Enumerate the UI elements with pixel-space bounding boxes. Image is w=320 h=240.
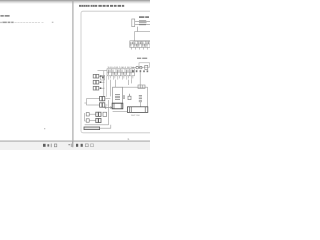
wire tank to reservoir <box>113 111 128 113</box>
wire drop lines from valve row <box>111 80 132 97</box>
wire right drop <box>147 87 149 106</box>
wire strainer stem <box>139 102 141 107</box>
wire right vertical to bottom <box>108 100 110 125</box>
cylinder C1 <box>132 19 150 27</box>
wire pump down <box>139 72 141 87</box>
strainer S1 hatched <box>139 95 142 101</box>
valve row spring marks below <box>109 76 133 80</box>
pump P1 symbols <box>136 65 148 69</box>
check valve row CV2 <box>88 103 108 107</box>
pump group label text <box>137 58 147 59</box>
left page stray mark <box>44 128 45 129</box>
bracket wire left of check valves <box>86 99 87 105</box>
hose reel symbol <box>128 94 131 100</box>
valve row labels text <box>108 67 136 69</box>
cylinder C1 piston hatch <box>139 21 147 25</box>
page divider <box>72 0 73 141</box>
flow arrow symbol <box>105 107 112 109</box>
manifold bar B1 <box>84 127 100 130</box>
wire left stack vertical <box>103 71 105 97</box>
node tick label <box>84 102 86 104</box>
left page part number line <box>0 22 13 24</box>
bracket wire left of motors <box>85 113 87 121</box>
relief valve stack RV2 <box>93 80 104 84</box>
relief valve stack RV3 <box>93 86 104 90</box>
motor block M3 <box>132 70 134 72</box>
status bar <box>0 141 150 150</box>
wire from cylinder C1 down <box>137 27 139 32</box>
pump P1 lower marks <box>136 70 148 72</box>
wire from bar to right <box>100 125 111 128</box>
relief valve stack RV1 <box>93 74 104 78</box>
main valve row V6-V11 <box>107 69 134 76</box>
status bar separator <box>72 142 73 148</box>
tank T1 <box>112 87 123 109</box>
left page part label text <box>0 15 9 17</box>
diagram title <box>79 5 124 7</box>
small inline box on manifold <box>138 85 145 88</box>
status bar icons right <box>76 144 93 147</box>
check valve row CV1 <box>86 96 110 100</box>
wire into pump group <box>132 66 136 68</box>
cylinder C1 label text <box>139 16 149 18</box>
motor row M1 <box>86 112 106 116</box>
wire manifold horizontal <box>122 86 147 88</box>
status bar page indicator mark <box>68 143 70 146</box>
left page dotted leader line <box>15 21 41 23</box>
motor row M2 <box>86 118 101 122</box>
tank T1 bottom shell <box>112 103 123 109</box>
wire bottom horizontal <box>85 124 109 126</box>
svg-text:DEP 300: DEP 300 <box>131 115 140 117</box>
small pilot box <box>101 75 105 80</box>
gauge G1 <box>123 96 125 99</box>
valve bank spring marks <box>132 47 148 49</box>
wire left stack vertical 2 <box>106 76 108 97</box>
wire top connector to valve row <box>98 70 108 72</box>
filter F1 hatched <box>115 95 120 100</box>
control manifold box U1 <box>135 32 160 42</box>
diagram border frame <box>81 11 159 133</box>
pump group box P1 <box>139 63 150 67</box>
status bar icons left <box>43 144 57 148</box>
reservoir cylinder R1 <box>127 107 147 113</box>
svg-text:1.: 1. <box>127 137 130 141</box>
valve bank V1-V5 <box>130 41 150 48</box>
